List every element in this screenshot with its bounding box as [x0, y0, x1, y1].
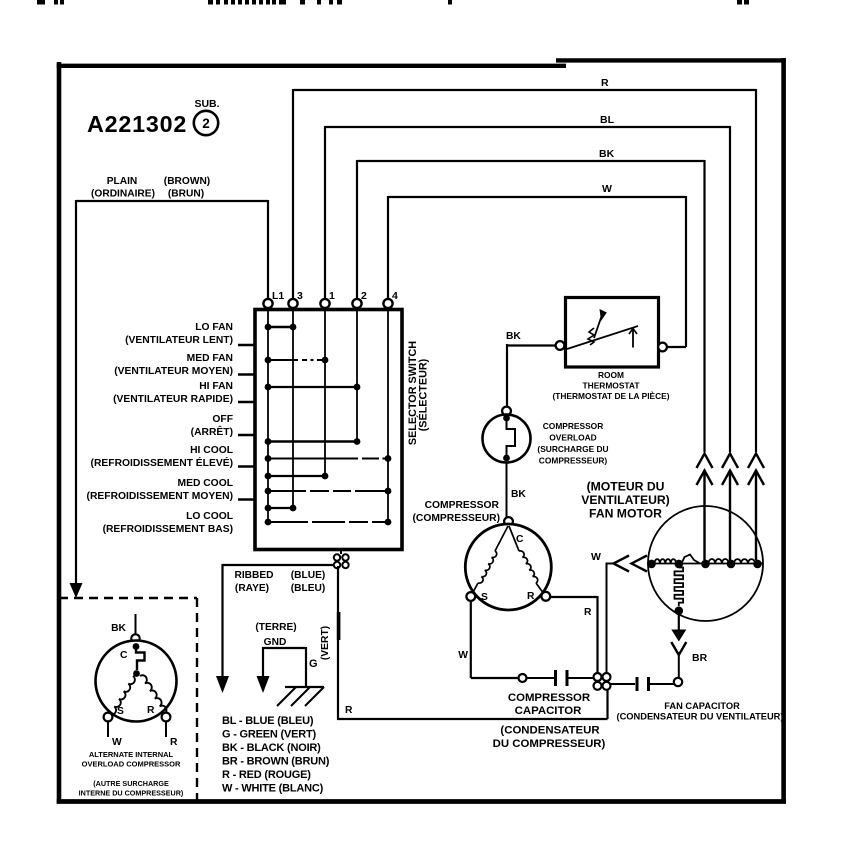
- svg-text:COMPRESSEUR): COMPRESSEUR): [539, 456, 608, 466]
- legend entry BR: [222, 756, 330, 768]
- svg-text:(VERT): (VERT): [320, 626, 331, 660]
- svg-text:(RAYE): (RAYE): [235, 583, 269, 594]
- label SELECTOR SWITCH rotated: [407, 341, 419, 445]
- overload element: [507, 418, 516, 455]
- wire capacitor left lead: [527, 677, 555, 679]
- svg-text:ALTERNATE INTERNAL: ALTERNATE INTERNAL: [89, 750, 174, 759]
- label (AUTRE SURCHARGE INTERNE DU COMPRESSEUR): [79, 779, 184, 798]
- svg-text:(BLEU): (BLEU): [291, 583, 326, 594]
- svg-text:(AUTRE SURCHARGE: (AUTRE SURCHARGE: [93, 779, 169, 788]
- outer border frame: [57, 58, 786, 804]
- legend entry BL: [222, 715, 314, 727]
- terminal R alternate: [162, 713, 171, 722]
- svg-text:(VENTILATEUR LENT): (VENTILATEUR LENT): [125, 335, 233, 346]
- label S compressor: [481, 592, 488, 603]
- wire W alternate: [107, 722, 109, 738]
- svg-text:(CONDENSATEUR: (CONDENSATEUR: [500, 725, 599, 737]
- label FAN CAPACITOR (CONDENSATEUR DU VENTILATEUR): [617, 701, 784, 722]
- switch position label MED COOL: [87, 478, 233, 502]
- switch position label HI FAN: [113, 381, 233, 405]
- wire R: compressor R to capacitor cluster: [550, 596, 598, 673]
- svg-text:S: S: [117, 706, 124, 717]
- cropped text remnants at page top: [37, 0, 749, 5]
- svg-text:COMPRESSOR: COMPRESSOR: [508, 692, 590, 704]
- capacitor terminal cluster: [594, 673, 611, 690]
- arrowhead ribbed wire: [216, 676, 229, 693]
- svg-text:HI FAN: HI FAN: [199, 381, 233, 392]
- svg-text:OVERLOAD: OVERLOAD: [549, 433, 596, 443]
- switch internal bus L1: [267, 311, 269, 522]
- label R (red rail): [601, 77, 609, 89]
- svg-text:(REFROIDISSEMENT BAS): (REFROIDISSEMENT BAS): [103, 524, 233, 535]
- legend entry R: [222, 769, 311, 781]
- svg-text:R: R: [527, 591, 535, 602]
- fan motor winding tap dot 5: [753, 560, 762, 569]
- wire brown/plain: left drop and run to L1: [76, 200, 268, 588]
- svg-text:C: C: [120, 650, 128, 661]
- label (MOTEUR DU VENTILATEUR) FAN MOTOR: [581, 480, 669, 521]
- connector chevrons BL rail: [722, 454, 738, 561]
- label R alternate: [147, 705, 155, 716]
- terminal fan capacitor right: [674, 678, 682, 686]
- label R compressor: [527, 591, 535, 602]
- MED COOL fan contact row: L1-1: [265, 473, 329, 480]
- svg-text:DU COMPRESSEUR): DU COMPRESSEUR): [493, 738, 606, 750]
- terminal compressor C: [504, 517, 513, 526]
- svg-text:LO FAN: LO FAN: [195, 322, 233, 333]
- thermostat bimetal squiggle: [588, 328, 594, 345]
- label pointer tick 5: [238, 465, 255, 468]
- svg-text:(REFROIDISSEMENT ÉLEVÉ): (REFROIDISSEMENT ÉLEVÉ): [91, 456, 233, 469]
- label RIBBED (RAYE): [234, 570, 273, 594]
- svg-text:BK: BK: [599, 148, 615, 160]
- label ALTERNATE INTERNAL OVERLOAD COMPRESSOR: [82, 750, 181, 769]
- wire BL rail: pin 1 up, across, down to fan motor: [325, 126, 730, 452]
- wire ground branch: [263, 647, 306, 687]
- legend entry W: [222, 783, 324, 795]
- ground symbol chassis: [277, 687, 324, 706]
- svg-text:MED COOL: MED COOL: [178, 478, 234, 489]
- switch position label LO FAN: [125, 322, 233, 346]
- svg-text:(BRUN): (BRUN): [168, 189, 204, 200]
- wire green: cluster down to bottom run: [337, 566, 608, 719]
- svg-text:R: R: [584, 607, 592, 618]
- thermostat actuator arrow: [594, 309, 607, 338]
- svg-text:W - WHITE (BLANC): W - WHITE (BLANC): [222, 783, 324, 795]
- label G: [309, 658, 318, 670]
- switch internal bus 2: [356, 311, 358, 443]
- label BR: [692, 652, 708, 664]
- junction dot overload top: [503, 415, 510, 422]
- svg-text:BR: BR: [692, 652, 708, 664]
- label pointer tick 6: [238, 498, 255, 501]
- svg-text:OFF: OFF: [212, 414, 233, 425]
- fan motor body: [648, 506, 763, 621]
- MED COOL comp contact row: L1-4: [265, 488, 392, 495]
- label COMPRESSOR (COMPRESSEUR): [412, 500, 500, 524]
- svg-text:VENTILATEUR): VENTILATEUR): [581, 493, 669, 507]
- LO COOL fan contact row: L1-3: [265, 505, 297, 512]
- legend entry BK: [222, 742, 321, 754]
- svg-text:G: G: [309, 658, 318, 670]
- terminal overload top: [502, 407, 511, 416]
- selector switch terminals L1 3 1 2 4: [263, 299, 392, 308]
- revision circle 2: [194, 111, 218, 135]
- wire BK overload to compressor: [506, 463, 508, 518]
- svg-text:W: W: [591, 551, 601, 563]
- label R at bottom wire: [345, 705, 353, 716]
- label SUB.: [194, 98, 219, 110]
- wire W: fan motor lead with chevrons: [607, 556, 649, 674]
- svg-text:4: 4: [392, 290, 398, 302]
- label R lead alternate: [170, 737, 178, 748]
- compressor winding left: [471, 526, 508, 596]
- switch position label MED FAN: [114, 353, 233, 377]
- terminal thermostat left: [556, 341, 565, 350]
- svg-text:(THERMOSTAT DE LA PIÈCE): (THERMOSTAT DE LA PIÈCE): [552, 390, 669, 401]
- svg-text:RIBBED: RIBBED: [234, 570, 273, 581]
- wire BK rail: pin 2 up, across, down to fan motor: [357, 160, 705, 452]
- wire BK stub alternate overload: [135, 614, 137, 634]
- svg-text:(MOTEUR DU: (MOTEUR DU: [587, 480, 665, 494]
- label BK (black rail): [599, 148, 615, 160]
- compressor capacitor C1 plates: [556, 670, 568, 686]
- svg-text:ROOM: ROOM: [598, 370, 624, 380]
- svg-text:BK: BK: [111, 623, 126, 634]
- svg-text:BK - BLACK (NOIR): BK - BLACK (NOIR): [222, 742, 321, 754]
- svg-text:R: R: [170, 737, 178, 748]
- connector chevrons BK rail: [697, 454, 713, 561]
- label W compressor lead: [458, 650, 468, 661]
- arrowhead ground wire: [257, 676, 270, 693]
- fan motor stator winding: [649, 555, 764, 564]
- legend entry G: [222, 729, 317, 741]
- junction dot overload bottom: [503, 455, 510, 462]
- label C alternate: [120, 650, 128, 661]
- selector switch S1 body: [255, 310, 402, 550]
- wire BK: thermostat left lead down to overload: [507, 344, 556, 407]
- wire W: compressor S to capacitor: [471, 601, 519, 678]
- fan capacitor C2 plates: [637, 677, 649, 691]
- compressor overload body: [483, 415, 531, 463]
- wire W rail: pin 4 up, across, down to thermostat: [388, 196, 686, 347]
- label (CONDENSATEUR DU COMPRESSEUR): [493, 725, 606, 751]
- LO COOL comp contact row: L1-4: [265, 519, 392, 526]
- label pointer tick 4: [238, 434, 255, 437]
- label BL (blue rail): [600, 114, 615, 126]
- label (BLUE) (BLEU): [291, 570, 326, 594]
- wire R rail: pin 3 up, across, down to fan motor: [293, 89, 756, 452]
- label (TERRE) GND: [255, 622, 296, 648]
- svg-text:R: R: [345, 705, 353, 716]
- svg-text:C: C: [516, 534, 524, 545]
- switch internal bus 1: [324, 311, 326, 476]
- wire fan capacitor right lead: [649, 683, 674, 685]
- junction dot alternate top: [133, 643, 140, 650]
- svg-text:A221302: A221302: [87, 111, 187, 137]
- label R capacitor lead: [584, 607, 592, 618]
- label ROOM THERMOSTAT: [552, 370, 669, 401]
- connector chevrons R rail: [748, 454, 764, 561]
- svg-text:3: 3: [297, 290, 303, 302]
- svg-text:HI COOL: HI COOL: [190, 445, 233, 456]
- label W (white rail): [602, 183, 612, 195]
- svg-text:THERMOSTAT: THERMOSTAT: [583, 381, 641, 391]
- wire capacitor right lead: [568, 677, 594, 679]
- svg-text:(ORDINAIRE): (ORDINAIRE): [91, 189, 155, 200]
- HI FAN contact row: L1-2: [265, 384, 361, 391]
- winding alternate right: [140, 675, 167, 714]
- MED FAN contact row: L1-1: [265, 357, 329, 364]
- svg-text:BL - BLUE (BLEU): BL - BLUE (BLEU): [222, 715, 314, 727]
- junction dot alternate middle: [133, 670, 140, 677]
- label BK alternate: [111, 623, 126, 634]
- HI COOL fan contact row: L1-2: [265, 438, 361, 445]
- svg-text:BK: BK: [506, 331, 521, 342]
- label (BROWN) (BRUN): [164, 176, 210, 200]
- svg-text:W: W: [602, 183, 612, 195]
- overload element alternate: [136, 647, 145, 671]
- svg-text:(VENTILATEUR MOYEN): (VENTILATEUR MOYEN): [114, 366, 233, 377]
- terminal S alternate: [104, 713, 113, 722]
- fan motor winding tap dot 3: [701, 560, 710, 569]
- terminal alternate overload top: [131, 634, 139, 642]
- alternate overload compressor body: [96, 641, 177, 722]
- switch internal bus 3: [292, 311, 294, 508]
- svg-text:(COMPRESSEUR): (COMPRESSEUR): [412, 513, 500, 524]
- svg-text:OVERLOAD COMPRESSOR: OVERLOAD COMPRESSOR: [82, 760, 181, 769]
- junction dot fan motor bottom: [675, 607, 684, 616]
- label COMPRESSOR OVERLOAD (SURCHARGE DU COMPRESSEUR): [537, 421, 608, 466]
- switch position label OFF: [191, 414, 233, 438]
- fan motor winding tap dot 2: [675, 560, 684, 569]
- svg-text:(REFROIDISSEMENT MOYEN): (REFROIDISSEMENT MOYEN): [87, 491, 233, 502]
- svg-text:(TERRE): (TERRE): [255, 622, 296, 633]
- label W fan lead: [591, 551, 601, 563]
- wire thermostat right lead: [667, 346, 687, 348]
- svg-text:INTERNE DU COMPRESSEUR): INTERNE DU COMPRESSEUR): [79, 789, 184, 798]
- title A221302: [87, 111, 187, 137]
- label BK upper: [506, 331, 521, 342]
- svg-text:(CONDENSATEUR DU VENTILATEUR): (CONDENSATEUR DU VENTILATEUR): [617, 712, 784, 722]
- label (SELECTEUR) rotated: [417, 358, 430, 431]
- svg-text:(SURCHARGE DU: (SURCHARGE DU: [537, 444, 608, 454]
- svg-text:W: W: [458, 650, 468, 661]
- label PLAIN (ORDINAIRE): [91, 176, 155, 200]
- svg-text:R: R: [147, 705, 155, 716]
- svg-text:G - GREEN (VERT): G - GREEN (VERT): [222, 729, 317, 741]
- svg-text:L1: L1: [272, 290, 284, 302]
- svg-text:LO COOL: LO COOL: [186, 511, 233, 522]
- svg-text:2: 2: [361, 290, 367, 302]
- svg-text:FAN CAPACITOR: FAN CAPACITOR: [664, 701, 740, 711]
- terminal compressor capacitor left: [519, 674, 527, 682]
- terminal compressor S: [466, 592, 475, 601]
- svg-text:PLAIN: PLAIN: [107, 176, 138, 187]
- label (VERT) rotated: [320, 626, 331, 660]
- label pointer tick 2: [238, 373, 255, 376]
- svg-text:COMPRESSOR: COMPRESSOR: [543, 421, 604, 431]
- svg-text:W: W: [112, 737, 122, 748]
- svg-text:(ARRÊT): (ARRÊT): [191, 425, 233, 438]
- switch position label HI COOL: [91, 445, 233, 469]
- svg-text:COMPRESSOR: COMPRESSOR: [425, 500, 500, 511]
- wire R alternate: [165, 722, 167, 738]
- svg-text:S: S: [481, 592, 488, 603]
- fan motor winding tap dot 4: [727, 560, 736, 569]
- svg-text:BR - BROWN (BRUN): BR - BROWN (BRUN): [222, 756, 330, 768]
- wire green up into cluster: [606, 690, 608, 719]
- svg-text:2: 2: [202, 116, 210, 131]
- arrowhead brown wire into dashed box: [70, 583, 83, 598]
- fan motor start winding: [675, 568, 684, 607]
- svg-text:GND: GND: [264, 637, 287, 648]
- svg-text:FAN MOTOR: FAN MOTOR: [589, 507, 662, 521]
- label pointer tick 1: [238, 344, 255, 347]
- svg-text:(VENTILATEUR RAPIDE): (VENTILATEUR RAPIDE): [113, 394, 233, 405]
- terminal compressor R: [541, 592, 550, 601]
- svg-text:BK: BK: [511, 489, 526, 500]
- winding alternate left: [110, 676, 135, 715]
- HI COOL comp contact row: L1-4: [265, 455, 392, 462]
- compressor body: [465, 524, 551, 610]
- svg-text:SUB.: SUB.: [194, 98, 219, 110]
- svg-text:BL: BL: [600, 114, 615, 126]
- compressor winding right: [509, 526, 546, 596]
- svg-text:1: 1: [329, 290, 335, 302]
- fan motor winding tap dot 1: [647, 560, 656, 569]
- label BK thermostat: [511, 489, 526, 500]
- pin labels L1 3 1 2 4: [272, 290, 398, 302]
- LO FAN contact row: L1-3: [265, 324, 297, 331]
- terminal thermostat right: [658, 343, 667, 352]
- svg-text:(BROWN): (BROWN): [164, 176, 210, 187]
- svg-text:R - RED (ROUGE): R - RED (ROUGE): [222, 769, 311, 781]
- label C compressor: [516, 534, 524, 545]
- svg-text:MED FAN: MED FAN: [187, 353, 233, 364]
- label S alternate: [117, 706, 124, 717]
- svg-text:CAPACITOR: CAPACITOR: [515, 705, 582, 717]
- svg-text:R: R: [601, 77, 609, 89]
- thermostat contact blade: [567, 326, 638, 349]
- thermostat adjust pin: [629, 329, 637, 348]
- room thermostat body: [566, 298, 659, 368]
- svg-text:(BLUE): (BLUE): [291, 570, 326, 581]
- switch bottom terminal cluster: [334, 549, 349, 568]
- label W alternate: [112, 737, 122, 748]
- switch position label LO COOL: [103, 511, 233, 535]
- switch internal bus 4: [387, 311, 389, 522]
- label COMPRESSOR CAPACITOR: [508, 692, 590, 717]
- svg-text:(SÉLECTEUR): (SÉLECTEUR): [417, 358, 430, 431]
- wire fan capacitor left lead: [611, 683, 636, 685]
- wire ribbed-blue: from switch cluster left then down: [223, 564, 335, 681]
- label pointer tick 3: [238, 401, 255, 404]
- wire BR lead with arrowhead: [671, 614, 686, 678]
- dashed enclosure alternate overload: [59, 598, 197, 801]
